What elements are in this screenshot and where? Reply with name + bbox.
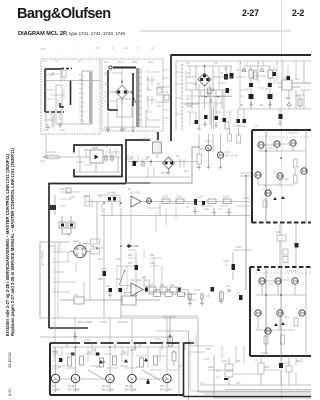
svg-text:10u: 10u [146, 156, 151, 159]
svg-text:5.04: 5.04 [204, 358, 209, 361]
svg-text:D1-D4: D1-D4 [206, 91, 214, 95]
svg-text:8-91: 8-91 [8, 388, 12, 396]
svg-text:(7A): (7A) [40, 160, 45, 163]
svg-text:C42: C42 [122, 351, 127, 354]
svg-text:R35: R35 [170, 284, 175, 287]
svg-text:C21: C21 [98, 258, 103, 261]
svg-text:230: 230 [105, 82, 110, 85]
svg-text:0.6V: 0.6V [268, 283, 273, 286]
svg-text:35V: 35V [186, 98, 191, 101]
svg-text:-15: -15 [95, 46, 100, 50]
svg-text:R22: R22 [284, 178, 289, 181]
svg-text:MC 51 BB: MC 51 BB [160, 389, 172, 392]
svg-text:1u2: 1u2 [226, 285, 231, 288]
svg-text:1Ω: 1Ω [96, 366, 99, 369]
svg-text:0110: 0110 [105, 72, 111, 75]
svg-text:TR1: TR1 [104, 62, 109, 64]
svg-text:C12: C12 [70, 196, 75, 199]
svg-text:~: ~ [58, 47, 60, 51]
svg-text:10u: 10u [130, 156, 135, 159]
svg-text:1T04: 1T04 [205, 140, 211, 143]
svg-text:115V: 115V [148, 62, 154, 64]
svg-text:1Ω: 1Ω [58, 366, 61, 369]
svg-text:R15: R15 [84, 195, 89, 198]
svg-text:2k2: 2k2 [116, 278, 121, 281]
svg-text:R42: R42 [130, 349, 135, 352]
svg-text:4R7: 4R7 [236, 382, 241, 385]
svg-text:4Ω7: 4Ω7 [134, 244, 139, 248]
svg-text:6211: 6211 [118, 62, 124, 64]
svg-text:L C7: L C7 [284, 362, 289, 365]
svg-text:2k2: 2k2 [177, 289, 182, 292]
svg-text:R52: R52 [296, 360, 301, 363]
svg-text:C24: C24 [106, 285, 111, 288]
svg-text:C1CO: C1CO [100, 268, 107, 271]
svg-text:C26: C26 [150, 262, 155, 265]
svg-text:PCB 2: PCB 2 [100, 320, 108, 324]
svg-text:100k: 100k [165, 289, 171, 292]
svg-text:C7: C7 [255, 124, 259, 128]
svg-text:SW: SW [44, 156, 49, 159]
svg-text:47n: 47n [206, 295, 211, 298]
svg-text:1N: 1N [265, 88, 268, 91]
svg-text:MC 51 BB: MC 51 BB [68, 389, 80, 392]
svg-text:16: 16 [124, 46, 128, 50]
svg-text:MC 1/2E: MC 1/2E [131, 278, 141, 282]
svg-text:C40: C40 [54, 351, 59, 354]
svg-text:R16: R16 [60, 188, 65, 191]
svg-text:78L05: 78L05 [142, 137, 150, 141]
svg-text:MCL 2AMP: MCL 2AMP [78, 320, 92, 324]
svg-text:R50: R50 [190, 342, 195, 345]
svg-text:470u: 470u [216, 111, 222, 114]
svg-text:C2M: C2M [73, 240, 78, 243]
svg-text:N: N [52, 72, 54, 75]
svg-text:1209: 1209 [162, 195, 168, 199]
svg-text:7809: 7809 [285, 97, 291, 100]
svg-text:1 TB 25.1: 1 TB 25.1 [286, 131, 298, 135]
svg-text:MC 51 BB: MC 51 BB [48, 389, 60, 392]
svg-text:1Ω: 1Ω [255, 359, 258, 362]
svg-text:4163: 4163 [176, 195, 182, 199]
svg-text:n=5,: n=5, [40, 47, 46, 51]
svg-text:230V: 230V [132, 62, 138, 64]
svg-text:MC 51 BB: MC 51 BB [125, 389, 137, 392]
svg-text:1k0: 1k0 [157, 105, 162, 108]
svg-text:6Ω25: 6Ω25 [223, 195, 230, 199]
svg-text:~2: ~2 [150, 46, 154, 50]
svg-text:C50: C50 [236, 360, 241, 363]
svg-text:1N: 1N [246, 88, 249, 91]
svg-text:PCB 4: PCB 4 [261, 351, 269, 355]
svg-text:L 2: L 2 [142, 275, 146, 279]
svg-text:22n: 22n [184, 170, 189, 173]
svg-text:R34: R34 [160, 284, 165, 287]
svg-text:0.7V: 0.7V [200, 382, 205, 385]
svg-text:134: 134 [225, 150, 230, 154]
svg-text:2-2: 2-2 [292, 8, 304, 18]
svg-text:R31: R31 [128, 254, 133, 257]
svg-text:R41: R41 [92, 349, 97, 352]
svg-text:4n7: 4n7 [98, 278, 103, 281]
svg-text:AC-DC: AC-DC [210, 105, 218, 108]
svg-text:R30: R30 [116, 258, 121, 261]
svg-text:MC 1/2F: MC 1/2F [130, 191, 140, 195]
svg-text:C41: C41 [88, 351, 93, 354]
svg-text:8002150: 8002150 [118, 320, 129, 324]
svg-text:R32: R32 [150, 254, 155, 257]
svg-text:2V: 2V [186, 206, 189, 209]
svg-text:7805: 7805 [92, 146, 99, 150]
svg-text:R12: R12 [200, 148, 205, 151]
svg-text:220u: 220u [264, 366, 270, 369]
svg-text:RL1: RL1 [74, 294, 79, 297]
svg-text:2k49: 2k49 [146, 197, 152, 200]
svg-text:0V: 0V [128, 188, 131, 191]
svg-text:D11: D11 [98, 195, 103, 198]
svg-text:C30: C30 [155, 338, 160, 341]
svg-text:120n: 120n [198, 195, 204, 199]
svg-text:Bang&Olufsen: Bang&Olufsen [17, 6, 111, 22]
svg-text:GND: GND [60, 130, 65, 132]
svg-text:D12: D12 [112, 195, 117, 198]
svg-text:L10k: L10k [223, 259, 229, 263]
svg-text:1Ω: 1Ω [136, 366, 139, 369]
svg-text:JP 1 TRAFO: JP 1 TRAFO [41, 249, 45, 266]
svg-text:0.6V: 0.6V [268, 147, 273, 150]
svg-text:MC 51 BB: MC 51 BB [102, 389, 114, 392]
svg-text:MC 137-46: MC 137-46 [225, 154, 238, 158]
svg-text:33.38782: 33.38782 [8, 352, 12, 368]
svg-text:100u: 100u [204, 208, 210, 211]
svg-text:2x05: 2x05 [43, 130, 49, 132]
svg-text:C14: C14 [216, 370, 221, 373]
svg-text:4 TB 25.1: 4 TB 25.1 [287, 269, 299, 273]
svg-text:C25: C25 [128, 262, 133, 265]
svg-text:2200u: 2200u [186, 105, 193, 108]
svg-text:5607: 5607 [275, 230, 281, 234]
svg-text:2-27: 2-27 [242, 8, 259, 18]
svg-text:AC: AC [80, 145, 84, 148]
svg-text:P4.04: P4.04 [194, 289, 201, 292]
svg-text:R1 4702: R1 4702 [236, 68, 246, 72]
svg-text:=: = [75, 46, 77, 50]
svg-text:Ba41: Ba41 [222, 360, 228, 363]
svg-text:S.08E-02: S.08E-02 [234, 124, 245, 128]
svg-text:Replaces pages 2-27 and 2-28 i: Replaces pages 2-27 and 2-28 in SERVICE … [10, 147, 15, 336]
svg-text:R23: R23 [284, 316, 289, 319]
svg-text:LR04: LR04 [243, 196, 250, 200]
svg-text:F1 1.6A: F1 1.6A [46, 150, 56, 154]
svg-text:47n: 47n [216, 376, 221, 379]
svg-text:470R: 470R [235, 245, 241, 249]
svg-text:D5-D8: D5-D8 [161, 171, 169, 175]
svg-text:R2: R2 [255, 68, 259, 72]
svg-text:DC: DC [105, 145, 109, 148]
svg-text:4u7: 4u7 [296, 78, 301, 81]
svg-text:220u: 220u [208, 366, 214, 369]
svg-text:R33: R33 [149, 284, 154, 287]
svg-text:R51: R51 [206, 348, 211, 351]
svg-text:+15V: +15V [84, 338, 90, 342]
